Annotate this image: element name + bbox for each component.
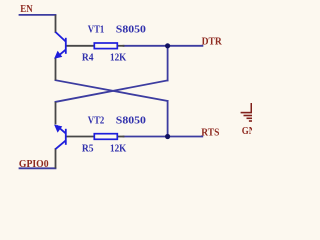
svg-text:DTR: DTR bbox=[202, 35, 223, 47]
svg-text:S8050: S8050 bbox=[116, 115, 147, 127]
svg-text:12K: 12K bbox=[110, 142, 127, 154]
svg-text:S8050: S8050 bbox=[116, 24, 147, 36]
svg-text:VT1: VT1 bbox=[88, 24, 105, 36]
svg-text:12K: 12K bbox=[110, 51, 127, 63]
svg-text:VT2: VT2 bbox=[88, 115, 105, 127]
svg-text:EN: EN bbox=[20, 3, 32, 15]
svg-text:GND: GND bbox=[242, 125, 252, 137]
svg-text:R5: R5 bbox=[82, 142, 94, 154]
svg-text:RTS: RTS bbox=[201, 127, 219, 139]
svg-text:R4: R4 bbox=[82, 51, 94, 63]
svg-text:GPIO0: GPIO0 bbox=[19, 158, 49, 170]
